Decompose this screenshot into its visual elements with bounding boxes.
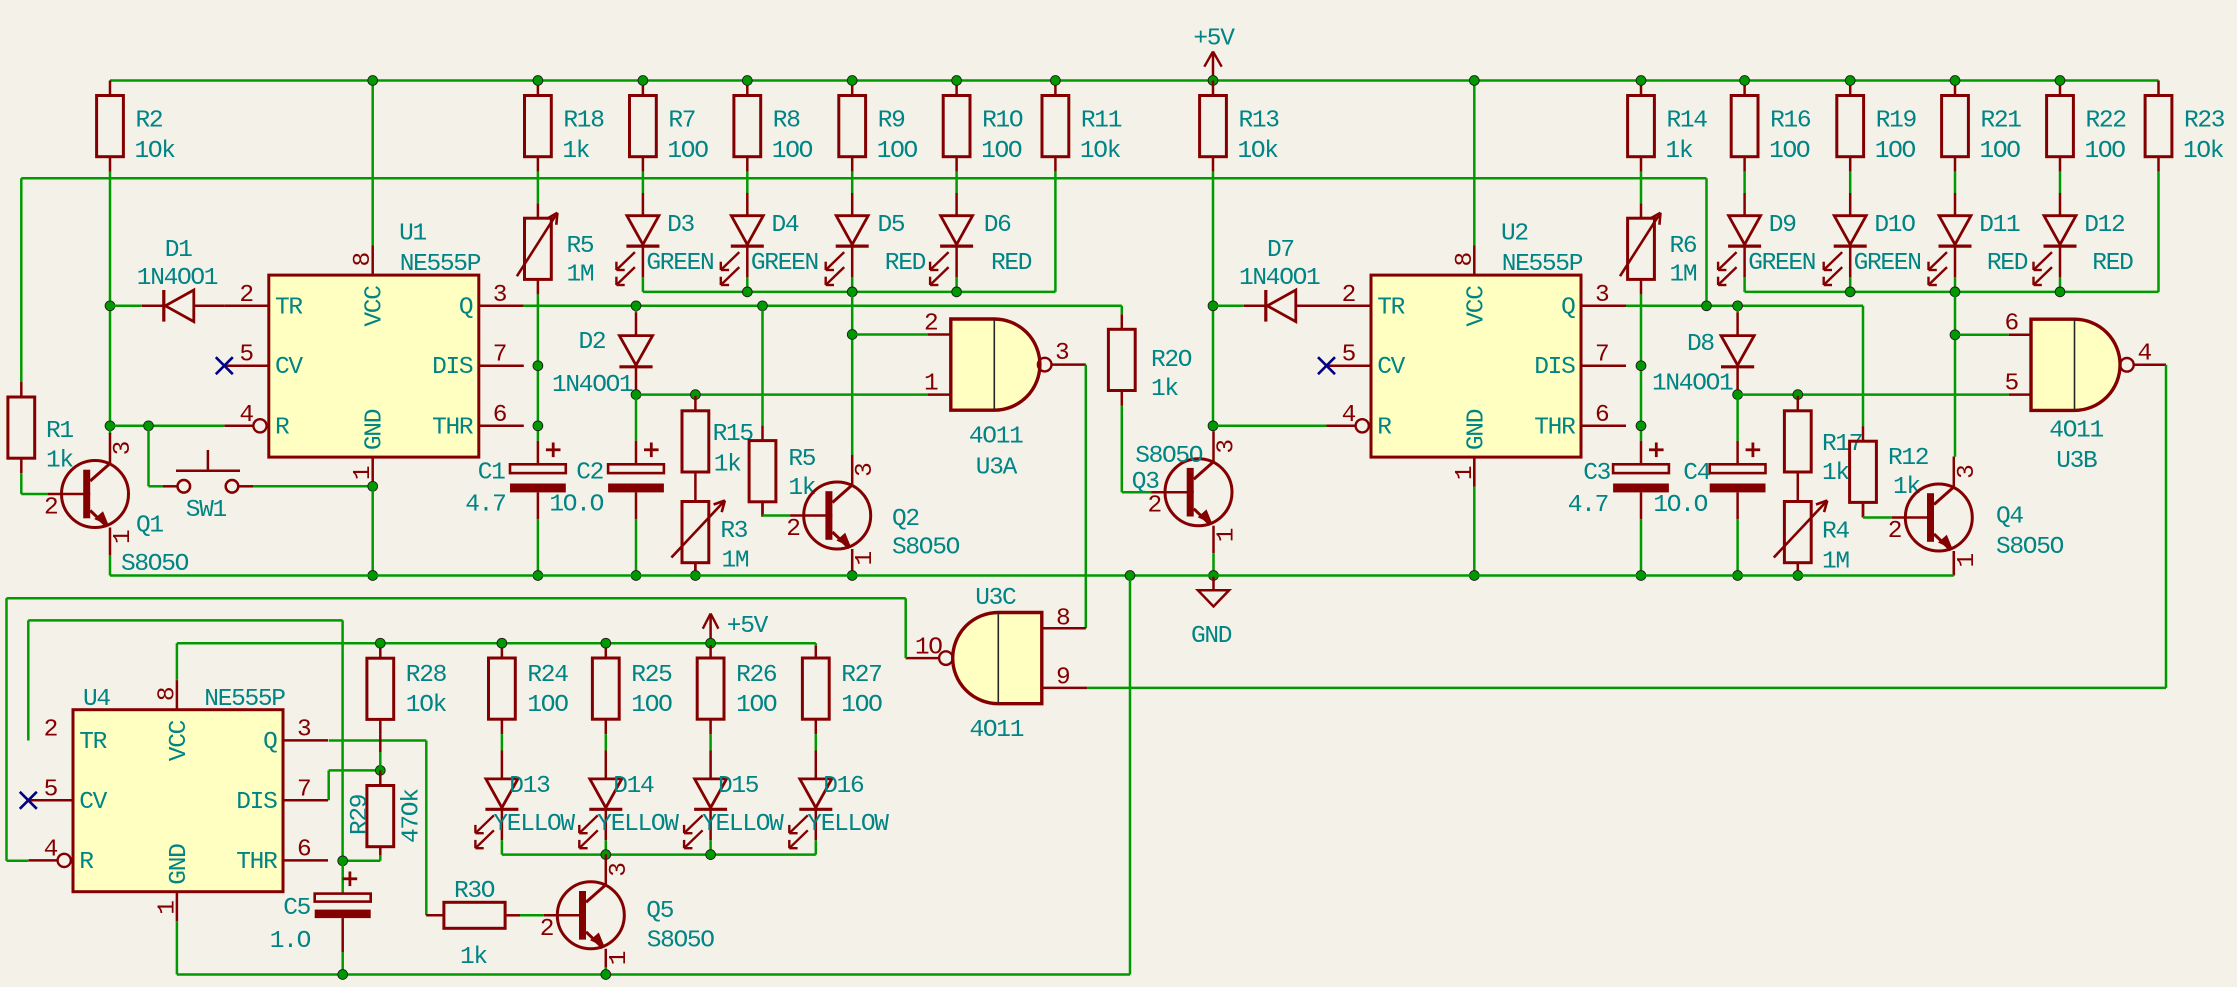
wire R4 to rail bbox=[1797, 563, 1800, 576]
wire D16 cathode bbox=[815, 840, 818, 854]
diode D8 1N4001 bbox=[1652, 306, 1754, 398]
svg-text:DIS: DIS bbox=[1534, 354, 1575, 381]
svg-text:7: 7 bbox=[1595, 342, 1608, 369]
wire U2 GND drop bbox=[1473, 457, 1476, 575]
junction cathode bus D6 bbox=[952, 287, 962, 297]
transistor Q5 S8050 bbox=[540, 854, 715, 974]
svg-text:1.O: 1.O bbox=[270, 928, 311, 955]
wire +5V bottom rail bbox=[177, 642, 816, 645]
wire U3A out drop bbox=[1085, 365, 1088, 629]
svg-text:C2: C2 bbox=[576, 460, 603, 487]
wire D3 anode bbox=[642, 172, 645, 193]
wire D14 anode bbox=[605, 734, 608, 750]
svg-text:GREEN: GREEN bbox=[1748, 250, 1815, 277]
svg-text:R21: R21 bbox=[1981, 108, 2022, 135]
svg-text:1M: 1M bbox=[567, 262, 594, 289]
junction cathode bus D5 bbox=[847, 287, 857, 297]
svg-text:Q1: Q1 bbox=[136, 513, 163, 540]
junction top rail at +5V bbox=[1208, 76, 1218, 86]
svg-text:R3: R3 bbox=[720, 518, 747, 545]
wire Q2 collector column bbox=[851, 292, 854, 455]
wire D11 anode bbox=[1954, 172, 1957, 193]
svg-text:R: R bbox=[1377, 414, 1392, 441]
junction R17 top bbox=[1793, 390, 1803, 400]
junction rail C3 bbox=[1636, 571, 1646, 581]
wire D6 anode bbox=[955, 172, 958, 193]
wire R13 column bbox=[1212, 172, 1215, 426]
LED D13 YELLOW bbox=[475, 751, 575, 849]
wire U3C out up bbox=[904, 598, 907, 658]
wire D10 cathode bbox=[1849, 277, 1852, 292]
wire R6 to DIS/THR column bbox=[1640, 294, 1643, 441]
svg-text:5: 5 bbox=[239, 342, 253, 369]
svg-text:R23: R23 bbox=[2184, 108, 2225, 135]
resistor R15 1k bbox=[682, 395, 753, 487]
svg-text:D2: D2 bbox=[579, 329, 606, 356]
wire U4 DIS bbox=[329, 770, 381, 800]
svg-text:3: 3 bbox=[852, 463, 879, 477]
wire D5 cathode bbox=[851, 277, 854, 292]
svg-text:TR: TR bbox=[275, 294, 303, 321]
nand U3A 4011 bbox=[924, 311, 1086, 482]
svg-text:Q: Q bbox=[459, 294, 473, 321]
wire U3A pin2 bbox=[852, 333, 928, 336]
svg-text:8: 8 bbox=[1452, 253, 1479, 267]
wire R5 to DIS/THR column bbox=[537, 294, 540, 441]
svg-text:1OO: 1OO bbox=[772, 138, 813, 165]
junction top rail R7 bbox=[638, 76, 648, 86]
svg-text:3: 3 bbox=[110, 441, 137, 455]
junction +5V rail R25 bbox=[601, 638, 611, 648]
svg-text:1: 1 bbox=[1954, 554, 1981, 568]
junction rail bridge bbox=[1125, 571, 1135, 581]
resistor R1 1k bbox=[8, 382, 74, 475]
no-connect U2 CV bbox=[1318, 357, 1335, 374]
svg-text:1k: 1k bbox=[1822, 460, 1849, 487]
svg-text:S8O5O: S8O5O bbox=[647, 928, 715, 955]
svg-text:2: 2 bbox=[1888, 518, 1901, 545]
resistor R16 100 bbox=[1731, 81, 1811, 172]
svg-text:THR: THR bbox=[236, 849, 278, 876]
wire D14 cathode bbox=[605, 840, 608, 854]
wire D5 anode bbox=[851, 172, 854, 193]
svg-text:C3: C3 bbox=[1583, 460, 1610, 487]
wire LED cathode bus right bbox=[1745, 291, 2159, 294]
no-connect U1 CV bbox=[216, 357, 233, 374]
svg-text:1N4OO1: 1N4OO1 bbox=[137, 265, 218, 292]
resistor R7 100 bbox=[630, 81, 709, 172]
wire D13 anode bbox=[501, 734, 504, 750]
junction rail R4 bbox=[1793, 571, 1803, 581]
wire D3 cathode bbox=[642, 277, 645, 292]
svg-text:D6: D6 bbox=[984, 212, 1011, 239]
LED D5 RED bbox=[826, 193, 926, 285]
wire R5b to Q2 base bbox=[763, 502, 791, 516]
capacitor C2 10.0 bbox=[549, 395, 664, 519]
svg-text:D4: D4 bbox=[772, 212, 799, 239]
svg-text:3: 3 bbox=[297, 716, 311, 743]
wire gate input line y394 right bbox=[1738, 393, 2009, 396]
svg-text:1k: 1k bbox=[714, 452, 741, 479]
junction rail R3 bbox=[691, 571, 701, 581]
svg-text:47Ok: 47Ok bbox=[399, 789, 426, 843]
junction rail U2 GND bbox=[1469, 571, 1479, 581]
svg-text:4: 4 bbox=[1342, 402, 1356, 429]
LED D11 RED bbox=[1929, 193, 2028, 285]
LED D6 RED bbox=[930, 193, 1032, 285]
svg-text:R29: R29 bbox=[347, 795, 374, 835]
svg-text:R22: R22 bbox=[2086, 108, 2126, 135]
svg-text:RED: RED bbox=[991, 250, 1032, 277]
svg-text:D12: D12 bbox=[2084, 212, 2124, 239]
svg-text:1N4OO1: 1N4OO1 bbox=[1239, 265, 1320, 292]
svg-text:3: 3 bbox=[493, 282, 507, 309]
svg-text:1OO: 1OO bbox=[527, 692, 568, 719]
svg-text:2: 2 bbox=[1148, 493, 1161, 520]
svg-text:U3C: U3C bbox=[975, 585, 1016, 612]
resistor R17 1k bbox=[1784, 395, 1862, 487]
junction Q2line feedback bbox=[1702, 301, 1712, 311]
svg-text:S8O5O: S8O5O bbox=[1996, 534, 2064, 561]
wire R11 drop bbox=[1054, 172, 1057, 292]
transistor Q4 S8050 bbox=[1888, 457, 2064, 576]
op-amp U1 NE555P bbox=[224, 221, 524, 487]
LED D12 RED bbox=[2034, 193, 2134, 285]
wire Q1 collector link bbox=[109, 426, 112, 434]
junction top rail R16 bbox=[1740, 76, 1750, 86]
junction rail C4 bbox=[1733, 571, 1743, 581]
svg-text:2: 2 bbox=[924, 311, 937, 338]
svg-text:GND: GND bbox=[1191, 623, 1232, 650]
junction rail Q2 emitter bbox=[847, 571, 857, 581]
junction top rail R11 bbox=[1051, 76, 1061, 86]
svg-text:R8: R8 bbox=[773, 108, 800, 135]
svg-text:3: 3 bbox=[1214, 440, 1241, 454]
svg-text:GREEN: GREEN bbox=[1854, 250, 1921, 277]
wire D9 cathode bbox=[1743, 277, 1746, 292]
svg-text:Q4: Q4 bbox=[1996, 504, 2023, 531]
junction R13/R-pin U2 bbox=[1208, 421, 1218, 431]
junction R5/THR bbox=[533, 421, 543, 431]
svg-text:1OO: 1OO bbox=[1769, 138, 1810, 165]
wire D1 to R2 node bbox=[110, 305, 142, 308]
nand U3B 4011 bbox=[2005, 311, 2167, 476]
LED D10 GREEN bbox=[1824, 193, 1921, 285]
resistor R21 100 bbox=[1942, 81, 2022, 172]
wire R18-R5 bbox=[537, 172, 540, 204]
svg-text:R: R bbox=[275, 414, 290, 441]
wire U4 Q line bbox=[329, 739, 427, 742]
junction rail2 C5 bbox=[338, 970, 348, 980]
junction top rail U1 VCC bbox=[368, 76, 378, 86]
svg-text:R18: R18 bbox=[563, 108, 604, 135]
svg-text:2: 2 bbox=[44, 495, 57, 522]
svg-text:R9: R9 bbox=[878, 108, 905, 135]
svg-text:S8O5O: S8O5O bbox=[121, 551, 189, 578]
wire D16 anode bbox=[815, 734, 818, 750]
junction U3B in6 node bbox=[1950, 330, 1960, 340]
svg-text:4.7: 4.7 bbox=[1568, 492, 1608, 519]
wire feedback line y178 bbox=[21, 177, 1706, 180]
wire U1 GND drop bbox=[371, 486, 374, 575]
LED D14 YELLOW bbox=[579, 751, 679, 849]
resistor R18 1k bbox=[525, 81, 605, 172]
wire C3 bottom bbox=[1640, 519, 1643, 575]
svg-text:R27: R27 bbox=[841, 662, 881, 689]
junction R15 top bbox=[691, 390, 701, 400]
resistor R13 10k bbox=[1200, 81, 1280, 172]
resistor R25 100 bbox=[592, 645, 672, 734]
svg-text:GND: GND bbox=[1463, 409, 1490, 450]
svg-text:TR: TR bbox=[1377, 294, 1405, 321]
svg-text:YELLOW: YELLOW bbox=[807, 811, 889, 838]
svg-text:+5V: +5V bbox=[727, 613, 769, 640]
svg-text:4: 4 bbox=[44, 836, 58, 863]
transistor Q1 S8050 bbox=[44, 433, 189, 578]
junction rail Q3 bbox=[1209, 571, 1219, 581]
svg-text:NE555P: NE555P bbox=[204, 686, 285, 713]
wire U3B out drop bbox=[2165, 365, 2168, 688]
svg-text:5: 5 bbox=[1342, 342, 1356, 369]
svg-text:YELLOW: YELLOW bbox=[493, 811, 575, 838]
svg-text:GND: GND bbox=[166, 844, 193, 885]
svg-text:7: 7 bbox=[297, 776, 310, 803]
junction R6/DIS bbox=[1636, 361, 1646, 371]
capacitor C1 4.7 bbox=[465, 441, 566, 519]
junction Q-line R5b bbox=[758, 301, 768, 311]
wire U2 R to node bbox=[1213, 425, 1327, 428]
junction +5V rail at arrow bbox=[706, 638, 716, 648]
svg-text:1: 1 bbox=[350, 466, 377, 480]
wire yellow cathode bus bbox=[502, 853, 816, 856]
junction ybus D15 bbox=[706, 850, 716, 860]
junction D8 bottom bbox=[1733, 390, 1743, 400]
svg-text:D9: D9 bbox=[1769, 212, 1796, 239]
junction top rail R10 bbox=[952, 76, 962, 86]
svg-text:+5V: +5V bbox=[1193, 26, 1235, 53]
wire D15 cathode bbox=[709, 840, 712, 854]
svg-text:4: 4 bbox=[2138, 341, 2152, 368]
svg-text:8: 8 bbox=[1056, 606, 1070, 633]
svg-text:1N4OO1: 1N4OO1 bbox=[1652, 370, 1733, 397]
resistor R5b 1k bbox=[749, 306, 816, 517]
ground symbol GND bbox=[1191, 576, 1232, 651]
diode D1 1N4001 bbox=[137, 237, 269, 322]
svg-text:R6: R6 bbox=[1670, 233, 1697, 260]
svg-text:U1: U1 bbox=[399, 221, 426, 248]
LED D3 GREEN bbox=[616, 193, 713, 285]
wire C4 bottom bbox=[1736, 519, 1739, 575]
svg-text:R2: R2 bbox=[136, 108, 163, 135]
wire U4 reset loop bbox=[7, 598, 906, 861]
junction top rail U2 VCC bbox=[1469, 76, 1479, 86]
no-connect U4 CV bbox=[20, 792, 37, 809]
svg-text:1M: 1M bbox=[1670, 262, 1697, 289]
svg-text:Q: Q bbox=[1561, 294, 1575, 321]
svg-text:1OO: 1OO bbox=[1980, 138, 2021, 165]
wire D7 to R13 node bbox=[1213, 305, 1244, 308]
junction top rail R9 bbox=[847, 76, 857, 86]
transistor Q2 S8050 bbox=[786, 455, 959, 576]
wire D11 cathode bbox=[1954, 277, 1957, 292]
switch SW1 bbox=[149, 426, 254, 524]
svg-text:2: 2 bbox=[540, 916, 553, 943]
svg-text:RED: RED bbox=[885, 250, 926, 277]
op-amp U4 NE555P bbox=[29, 680, 329, 921]
svg-text:1: 1 bbox=[110, 530, 137, 544]
junction R28/R29/DIS bbox=[375, 766, 385, 776]
svg-text:C1: C1 bbox=[478, 460, 505, 487]
wire R29 bottom bbox=[343, 855, 381, 861]
resistor R23 10k bbox=[2145, 81, 2225, 172]
svg-text:VCC: VCC bbox=[166, 720, 193, 761]
wire U4 GND drop bbox=[176, 921, 179, 974]
svg-text:CV: CV bbox=[275, 354, 303, 381]
junction R13/D7 bbox=[1208, 301, 1218, 311]
junction rail C1 bbox=[533, 571, 543, 581]
svg-text:D1O: D1O bbox=[1874, 212, 1915, 239]
svg-text:R13: R13 bbox=[1239, 108, 1280, 135]
wire C1 bottom bbox=[537, 519, 540, 575]
svg-text:R11: R11 bbox=[1081, 108, 1122, 135]
wire U1 R to node bbox=[110, 425, 224, 428]
wire D10 anode bbox=[1849, 172, 1852, 193]
LED D9 GREEN bbox=[1718, 193, 1815, 285]
wire R28 to R29 bbox=[379, 734, 382, 770]
svg-text:R1: R1 bbox=[46, 418, 73, 445]
junction top rail R8 bbox=[742, 76, 752, 86]
svg-text:U3A: U3A bbox=[976, 455, 1018, 482]
svg-text:6: 6 bbox=[1595, 402, 1609, 429]
wire LED cathode bus left bbox=[643, 291, 1056, 294]
wire U1 VCC drop bbox=[371, 81, 374, 246]
capacitor C5 1.0 bbox=[270, 861, 371, 975]
svg-text:R5: R5 bbox=[788, 446, 815, 473]
wire U2 VCC drop bbox=[1473, 81, 1476, 246]
wire R30 link bbox=[426, 914, 429, 917]
svg-text:6: 6 bbox=[2005, 311, 2019, 338]
svg-text:3: 3 bbox=[1595, 282, 1609, 309]
svg-text:3: 3 bbox=[1055, 340, 1069, 367]
svg-text:1OO: 1OO bbox=[841, 692, 882, 719]
svg-text:RED: RED bbox=[1987, 250, 2028, 277]
svg-text:1k: 1k bbox=[788, 475, 815, 502]
svg-text:Q2: Q2 bbox=[892, 506, 919, 533]
svg-text:D16: D16 bbox=[823, 773, 864, 800]
svg-text:1OO: 1OO bbox=[981, 138, 1022, 165]
wire C2 bottom bbox=[635, 519, 638, 575]
junction rail2 Q5 bbox=[601, 970, 611, 980]
svg-text:1: 1 bbox=[1214, 528, 1241, 542]
junction +5V rail R28 bbox=[375, 638, 385, 648]
svg-text:U2: U2 bbox=[1501, 221, 1528, 248]
svg-text:8: 8 bbox=[350, 253, 377, 267]
svg-text:D1: D1 bbox=[165, 237, 192, 264]
wire +5V top rail bbox=[110, 79, 2159, 82]
junction SW1 branch bbox=[144, 421, 154, 431]
junction top rail R18 bbox=[533, 76, 543, 86]
diode D7 1N4001 bbox=[1239, 237, 1371, 322]
LED D15 YELLOW bbox=[684, 751, 784, 849]
wire Q5 emitter bbox=[605, 967, 608, 975]
svg-text:1OO: 1OO bbox=[736, 692, 777, 719]
svg-text:U4: U4 bbox=[83, 686, 110, 713]
svg-text:D3: D3 bbox=[667, 212, 694, 239]
junction Q-line D2 bbox=[631, 301, 641, 311]
svg-text:Q3: Q3 bbox=[1132, 469, 1159, 496]
resistor R11 10k bbox=[1042, 81, 1122, 172]
wire feedback drop bbox=[1705, 178, 1708, 306]
svg-text:D15: D15 bbox=[718, 773, 759, 800]
junction D2 bottom bbox=[631, 390, 641, 400]
svg-text:1M: 1M bbox=[1822, 549, 1849, 576]
wire D12 cathode bbox=[2059, 277, 2062, 292]
junction top rail R14 bbox=[1636, 76, 1646, 86]
junction ybus D14/Q5 bbox=[601, 850, 611, 860]
junction rail U1 GND bbox=[368, 571, 378, 581]
resistor R14 1k bbox=[1628, 81, 1708, 172]
svg-text:2: 2 bbox=[44, 716, 57, 743]
svg-text:R25: R25 bbox=[631, 662, 672, 689]
svg-text:DIS: DIS bbox=[432, 354, 473, 381]
resistor R2 10k bbox=[97, 81, 176, 172]
svg-text:DIS: DIS bbox=[236, 789, 277, 816]
svg-text:8: 8 bbox=[154, 687, 181, 701]
junction +5V rail R24 bbox=[497, 638, 507, 648]
resistor R29 470k bbox=[347, 770, 426, 855]
svg-text:SW1: SW1 bbox=[186, 497, 227, 524]
svg-text:1N4OO1: 1N4OO1 bbox=[552, 372, 633, 399]
svg-text:1: 1 bbox=[924, 371, 938, 398]
svg-text:1: 1 bbox=[606, 951, 633, 965]
wire Q3 collector bbox=[1212, 426, 1215, 431]
svg-text:6: 6 bbox=[297, 836, 311, 863]
wire U4 VCC riser bbox=[176, 643, 179, 680]
svg-text:1O: 1O bbox=[915, 634, 942, 661]
wire R1 bottom bbox=[21, 473, 48, 494]
wire D4 anode bbox=[746, 172, 749, 193]
junction top rail R21 bbox=[1950, 76, 1960, 86]
junction R2/D1 node bbox=[105, 301, 115, 311]
svg-text:1O.O: 1O.O bbox=[1653, 492, 1707, 519]
resistor R27 100 bbox=[802, 645, 882, 734]
svg-text:R2O: R2O bbox=[1151, 347, 1192, 374]
resistor R22 100 bbox=[2047, 81, 2126, 172]
svg-text:R7: R7 bbox=[668, 108, 695, 135]
svg-text:R4: R4 bbox=[1822, 519, 1849, 546]
wire R3 to rail bbox=[694, 563, 697, 576]
potentiometer R5 1M bbox=[517, 203, 594, 294]
svg-text:4: 4 bbox=[239, 402, 253, 429]
svg-text:R26: R26 bbox=[736, 662, 777, 689]
svg-text:YELLOW: YELLOW bbox=[597, 811, 679, 838]
junction cathode bus D11 bbox=[1950, 287, 1960, 297]
svg-text:1Ok: 1Ok bbox=[406, 692, 447, 719]
wire D11/Q4 column bbox=[1954, 292, 1957, 457]
svg-text:NE555P: NE555P bbox=[400, 251, 481, 278]
svg-text:9: 9 bbox=[1056, 665, 1069, 692]
svg-text:VCC: VCC bbox=[362, 286, 389, 327]
wire Q4 emitter bbox=[1953, 551, 1956, 576]
junction cathode bus D4 bbox=[742, 287, 752, 297]
junction R2/R-pin node bbox=[105, 421, 115, 431]
resistor R26 100 bbox=[697, 645, 777, 734]
svg-text:1k: 1k bbox=[460, 944, 487, 971]
LED D4 GREEN bbox=[721, 193, 818, 285]
svg-text:D5: D5 bbox=[878, 212, 905, 239]
svg-text:VCC: VCC bbox=[1463, 286, 1490, 327]
svg-text:1k: 1k bbox=[1666, 138, 1693, 165]
